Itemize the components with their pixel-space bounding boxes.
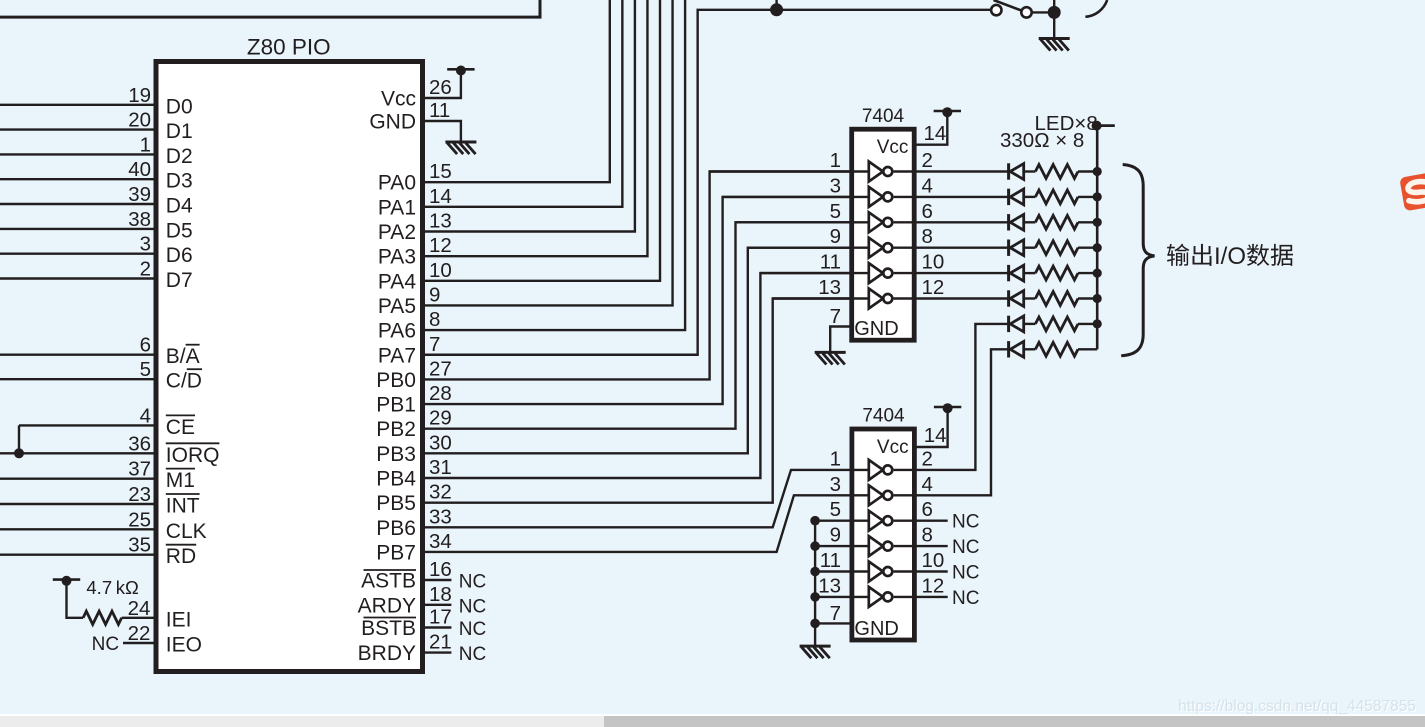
LED D2	[1007, 189, 1010, 205]
svg-text:22: 22	[128, 622, 151, 645]
wire U2 output to LED row 3	[894, 221, 1009, 223]
svg-text:NC: NC	[459, 596, 486, 617]
wire top left bus	[0, 0, 540, 17]
ground symbol U3	[800, 645, 831, 648]
inverter U2 gate 5 input wire	[760, 272, 868, 274]
wire control INT	[0, 503, 156, 505]
svg-text:13: 13	[429, 210, 452, 233]
inverter U2 gate 6	[869, 289, 883, 309]
wire control CE	[19, 424, 156, 426]
LED D5	[1007, 265, 1010, 281]
wire PB7 pin 34	[423, 495, 852, 552]
LED D3	[1007, 214, 1010, 230]
PIO GND pin 11 wire	[423, 121, 461, 142]
svg-text:CLK: CLK	[166, 520, 207, 543]
inverter U3 gate 3	[869, 511, 883, 531]
svg-text:30: 30	[429, 431, 452, 454]
svg-text:PA6: PA6	[378, 320, 416, 343]
wire PA1 pin 14	[423, 0, 623, 207]
svg-text:BRDY: BRDY	[358, 642, 416, 665]
junction CE/IORQ	[14, 448, 24, 458]
svg-text:5: 5	[830, 200, 841, 223]
svg-text:PB6: PB6	[376, 517, 416, 540]
svg-text:7404: 7404	[862, 106, 905, 127]
svg-text:GND: GND	[369, 111, 416, 134]
svg-text:21: 21	[429, 631, 452, 654]
svg-text:D5: D5	[166, 219, 193, 242]
svg-text:C/D: C/D	[166, 370, 202, 393]
svg-text:GND: GND	[854, 618, 898, 640]
svg-text:330Ω × 8: 330Ω × 8	[1000, 129, 1084, 152]
svg-text:12: 12	[922, 574, 945, 597]
Z80 PIO U1 chip body	[156, 62, 423, 672]
U3 gate 2 input wire	[852, 494, 869, 496]
svg-text:19: 19	[128, 84, 151, 107]
svg-text:NC: NC	[952, 537, 979, 558]
wire PA2 pin 13	[423, 0, 635, 232]
svg-text:https://blog.csdn.net/qq_44587: https://blog.csdn.net/qq_44587855	[1178, 698, 1416, 715]
wire resistor to IEI pin 24	[122, 617, 156, 619]
wire LED to resistor row 7	[1024, 323, 1036, 325]
svg-text:18: 18	[429, 583, 452, 606]
svg-text:9: 9	[429, 283, 440, 306]
wire LED to resistor row 2	[1024, 196, 1036, 198]
svg-text:8: 8	[922, 524, 933, 547]
wire resistor to bus row 4	[1078, 246, 1097, 248]
svg-text:35: 35	[128, 534, 151, 557]
U3 output pin 8 NC stub	[894, 545, 948, 547]
svg-text:PB7: PB7	[376, 541, 416, 564]
junction dot gnd 9	[810, 541, 820, 551]
svg-text:14: 14	[429, 185, 452, 208]
wire control RD	[0, 554, 156, 556]
7404 U3 chip body	[852, 429, 915, 640]
LED common bus vertical	[1096, 126, 1099, 350]
wire data bus D4	[0, 203, 156, 205]
wire LED to resistor row 5	[1024, 272, 1036, 274]
svg-text:PB5: PB5	[376, 492, 416, 515]
U3 output pin 12 NC stub	[894, 596, 948, 598]
svg-text:RD: RD	[166, 545, 196, 568]
resistor 330 ohm row 1	[1035, 165, 1078, 179]
svg-text:2: 2	[922, 447, 933, 470]
svg-text:NC: NC	[459, 572, 486, 593]
svg-text:PB0: PB0	[376, 369, 416, 392]
resistor R1 4.7k zigzag	[83, 611, 122, 624]
svg-text:40: 40	[128, 158, 151, 181]
brace output group	[1121, 165, 1154, 356]
svg-text:9: 9	[830, 524, 841, 547]
U3 input pin 13 grounded stub	[815, 596, 868, 598]
ground symbol pin 11	[445, 141, 476, 144]
label shuchu I/O shuju (output I/O data)	[1167, 244, 1189, 266]
partial arc symbol top right	[1085, 0, 1107, 17]
inverter U2 gate 3 input wire	[736, 221, 869, 223]
svg-text:16: 16	[429, 558, 452, 581]
wire control IORQ	[0, 452, 156, 454]
svg-text:17: 17	[429, 606, 452, 629]
wire U2 output to LED row 4	[894, 246, 1009, 248]
U3 input pin 5 grounded stub	[815, 520, 868, 522]
scrollbar track	[0, 714, 1425, 716]
wire LED to resistor row 1	[1024, 170, 1036, 172]
svg-text:13: 13	[818, 574, 841, 597]
wire resistor to bus row 2	[1078, 196, 1097, 198]
inverter U3 gate 5	[869, 562, 883, 582]
svg-text:39: 39	[128, 183, 151, 206]
wire LED to resistor row 8	[1024, 348, 1036, 350]
svg-text:6: 6	[922, 200, 933, 223]
wire data bus D5	[0, 228, 156, 230]
junction on top wire	[770, 3, 783, 16]
svg-text:31: 31	[429, 456, 452, 479]
svg-text:IORQ: IORQ	[166, 444, 220, 467]
svg-text:10: 10	[922, 251, 945, 274]
svg-text:NC: NC	[952, 563, 979, 584]
wire PB4 pin 31	[423, 273, 852, 478]
U3 pin 14 wire	[914, 413, 947, 447]
wire PA3 pin 12	[423, 0, 648, 256]
wire control C/D	[0, 378, 156, 380]
bus top stub	[1097, 124, 1115, 127]
svg-text:3: 3	[830, 473, 841, 496]
switch S1 terminal 1	[991, 5, 1001, 15]
svg-text:8: 8	[922, 225, 933, 248]
svg-text:PA3: PA3	[378, 246, 416, 269]
wire PB3 pin 30	[423, 248, 852, 454]
svg-text:PA0: PA0	[378, 172, 416, 195]
svg-text:11: 11	[820, 251, 841, 274]
svg-text:4: 4	[922, 174, 933, 197]
svg-text:11: 11	[429, 99, 450, 122]
bus top junction	[1092, 121, 1102, 131]
junction dot gnd 5	[810, 516, 820, 526]
inverter U2 gate 4	[869, 238, 883, 258]
U3 output pin 6 NC stub	[894, 520, 948, 522]
resistor 330 ohm row 6	[1035, 292, 1078, 306]
resistor 330 ohm row 3	[1035, 215, 1078, 229]
svg-text:2: 2	[922, 149, 933, 172]
svg-text:PA4: PA4	[378, 270, 416, 293]
svg-text:BSTB: BSTB	[361, 617, 416, 640]
resistor 330 ohm row 4	[1035, 241, 1078, 255]
svg-text:D6: D6	[166, 244, 193, 267]
junction dot bus row 3	[1093, 218, 1102, 227]
wire resistor to bus row 6	[1078, 297, 1097, 299]
wire data bus D0	[0, 104, 156, 106]
LED D1	[1007, 163, 1010, 179]
svg-text:33: 33	[429, 505, 452, 528]
svg-text:PB4: PB4	[376, 468, 416, 491]
scrollbar thumb	[604, 716, 1425, 727]
svg-text:25: 25	[128, 508, 151, 531]
wire ARDY pin 18 NC stub	[423, 604, 452, 606]
U3 output pin 2 wire to LED row 7	[894, 324, 1009, 470]
U3 input pin 9 grounded stub	[815, 545, 868, 547]
wire resistor to bus row 3	[1078, 221, 1097, 223]
svg-text:15: 15	[429, 160, 452, 183]
wire LED to resistor row 4	[1024, 246, 1036, 248]
inverter U3 gate 2	[869, 485, 883, 505]
U3 output pin 10 NC stub	[894, 570, 948, 572]
svg-text:D2: D2	[166, 145, 193, 168]
svg-text:12: 12	[429, 234, 452, 257]
resistor 330 ohm row 8	[1035, 342, 1078, 356]
svg-text:4: 4	[922, 473, 933, 496]
switch S1 lever	[994, 0, 1027, 12]
junction dot gnd 11	[810, 567, 820, 577]
junction dot bus row 1	[1093, 167, 1102, 176]
U3 ground bus vertical	[814, 521, 816, 646]
inverter U3 gate 1	[869, 460, 883, 480]
svg-text:NC: NC	[952, 588, 979, 609]
inverter U2 gate 1 input wire	[710, 170, 869, 172]
wire data bus D6	[0, 252, 156, 254]
svg-text:Vcc: Vcc	[877, 137, 909, 158]
ground symbol switch	[1039, 37, 1070, 40]
resistor 330 ohm row 7	[1035, 317, 1078, 331]
wire Vcc tap down to resistor	[67, 584, 84, 618]
svg-text:23: 23	[128, 483, 151, 506]
svg-text:7: 7	[830, 305, 841, 328]
wire switch to ground	[1032, 11, 1055, 13]
svg-text:NC: NC	[459, 619, 486, 640]
Vcc tap U3	[934, 406, 961, 409]
svg-text:10: 10	[922, 549, 945, 572]
svg-text:3: 3	[140, 233, 151, 256]
svg-text:37: 37	[128, 458, 151, 481]
svg-text:I/O: I/O	[1214, 243, 1246, 270]
junction dot gnd 13	[810, 592, 820, 602]
svg-text:4: 4	[140, 404, 151, 427]
wire ASTB pin 16 NC stub	[423, 579, 452, 581]
wire NC to IEO pin 22	[123, 642, 156, 644]
7404 U2 chip body	[852, 129, 915, 340]
junction dot bus row 7	[1093, 319, 1102, 328]
junction dot pin7	[810, 619, 820, 629]
svg-text:1: 1	[830, 149, 841, 172]
svg-text:14: 14	[924, 424, 947, 447]
svg-text:INT: INT	[166, 495, 200, 518]
wire data bus D7	[0, 277, 156, 279]
U2 pin 14 wire	[914, 117, 947, 145]
U3 input pin 11 grounded stub	[815, 570, 868, 572]
svg-text:14: 14	[924, 122, 947, 145]
Vcc tap U2	[934, 110, 961, 113]
wire control CLK	[0, 528, 156, 530]
wire PB6 pin 33	[423, 470, 852, 527]
svg-text:6: 6	[140, 334, 151, 357]
U2 pin 7 GND wire	[830, 327, 852, 353]
svg-text:IEI: IEI	[166, 608, 192, 631]
U3 gate 1 input wire	[852, 469, 869, 471]
LED D8	[1007, 341, 1010, 357]
svg-text:D1: D1	[166, 120, 193, 143]
wire BRDY pin 21 NC stub	[423, 651, 452, 653]
inverter U2 gate 4 input wire	[748, 246, 869, 248]
wire U2 output to LED row 6	[894, 297, 1009, 299]
svg-text:1: 1	[140, 133, 151, 156]
ground symbol U2	[815, 351, 846, 354]
Vcc tap symbol pin 26	[447, 68, 474, 71]
svg-text:11: 11	[820, 549, 841, 572]
svg-text:28: 28	[429, 382, 452, 405]
svg-text:D3: D3	[166, 170, 193, 193]
PIO Vcc pin 26 wire	[423, 75, 461, 98]
wire data bus D2	[0, 153, 156, 155]
resistor 330 ohm row 5	[1035, 266, 1078, 280]
inverter U3 gate 6	[869, 587, 883, 607]
svg-text:12: 12	[922, 276, 945, 299]
wire resistor to bus row 1	[1078, 170, 1097, 172]
wire control M1	[0, 477, 156, 479]
svg-text:29: 29	[429, 407, 452, 430]
wire PA7 pin 7	[423, 10, 992, 355]
wire LED to resistor row 3	[1024, 221, 1036, 223]
svg-text:ARDY: ARDY	[358, 594, 416, 617]
Vcc tap above 4.7k resistor	[53, 578, 80, 581]
inverter U2 gate 1	[869, 162, 883, 182]
svg-text:9: 9	[830, 225, 841, 248]
svg-text:PA5: PA5	[378, 295, 416, 318]
inverter U2 gate 3	[869, 212, 883, 232]
svg-text:CE: CE	[166, 416, 195, 439]
resistor 330 ohm row 2	[1035, 190, 1078, 204]
wire BSTB pin 17 NC stub	[423, 626, 452, 628]
LED D7	[1007, 316, 1010, 332]
svg-text:34: 34	[429, 530, 452, 553]
svg-text:8: 8	[429, 308, 440, 331]
wire PB5 pin 32	[423, 299, 852, 503]
svg-text:36: 36	[128, 432, 151, 455]
U3 pin 7 GND wire	[815, 622, 852, 624]
svg-text:PA2: PA2	[378, 221, 416, 244]
svg-text:IEO: IEO	[166, 634, 202, 657]
svg-text:26: 26	[429, 76, 452, 99]
svg-text:PA1: PA1	[378, 196, 416, 219]
svg-text:3: 3	[830, 174, 841, 197]
svg-text:B/A: B/A	[166, 345, 200, 368]
svg-text:5: 5	[830, 498, 841, 521]
junction dot bus row 6	[1093, 294, 1102, 303]
LED D6	[1007, 290, 1010, 306]
svg-text:GND: GND	[854, 318, 898, 340]
wire U2 output to LED row 5	[894, 272, 1009, 274]
svg-text:13: 13	[818, 276, 841, 299]
wire U2 output to LED row 2	[894, 196, 1009, 198]
wire U2 output to LED row 1	[894, 170, 1009, 172]
wire control B/A	[0, 354, 156, 356]
wire PA4 pin 10	[423, 0, 661, 281]
inverter U2 gate 2	[869, 187, 883, 207]
svg-text:38: 38	[128, 208, 151, 231]
junction dot bus row 2	[1093, 192, 1102, 201]
svg-text:PA7: PA7	[378, 344, 416, 367]
wire PA0 pin 15	[423, 0, 610, 182]
svg-text:PB2: PB2	[376, 418, 416, 441]
svg-text:27: 27	[429, 357, 452, 380]
svg-text:7: 7	[830, 602, 841, 625]
svg-text:20: 20	[128, 109, 151, 132]
svg-text:D4: D4	[166, 195, 193, 218]
inverter U2 gate 6 input wire	[773, 297, 869, 299]
wire PB0 pin 27	[423, 172, 852, 380]
svg-text:M1: M1	[166, 469, 195, 492]
junction dot bus row 4	[1093, 243, 1102, 252]
svg-text:PB1: PB1	[376, 394, 416, 417]
wire resistor to bus row 8	[1078, 348, 1097, 350]
wire PA6 pin 8	[423, 0, 686, 330]
CSDN logo fragment	[1399, 171, 1425, 211]
junction at switch ground	[1048, 6, 1061, 19]
inverter U2 gate 2 input wire	[723, 196, 869, 198]
inverter U3 gate 4	[869, 536, 883, 556]
svg-text:D0: D0	[166, 95, 193, 118]
svg-text:5: 5	[140, 358, 151, 381]
svg-text:Vcc: Vcc	[877, 437, 909, 458]
svg-text:6: 6	[922, 498, 933, 521]
svg-text:NC: NC	[952, 512, 979, 533]
svg-text:1: 1	[830, 447, 841, 470]
wire LED to resistor row 6	[1024, 297, 1036, 299]
svg-text:4.7 kΩ: 4.7 kΩ	[86, 577, 139, 598]
svg-text:PB3: PB3	[376, 443, 416, 466]
wire PB2 pin 29	[423, 222, 852, 428]
svg-text:NC: NC	[92, 634, 119, 655]
wire data bus D3	[0, 178, 156, 180]
inverter U2 gate 5	[869, 263, 883, 283]
wire CE to IORQ jog	[18, 425, 20, 453]
svg-text:D7: D7	[166, 269, 193, 292]
svg-text:2: 2	[140, 258, 151, 281]
svg-text:7404: 7404	[862, 406, 905, 427]
svg-text:32: 32	[429, 481, 452, 504]
wire PA5 pin 9	[423, 0, 673, 305]
svg-text:Z80 PIO: Z80 PIO	[247, 35, 331, 60]
svg-text:10: 10	[429, 259, 452, 282]
svg-text:24: 24	[128, 597, 151, 620]
svg-text:NC: NC	[459, 644, 486, 665]
svg-text:Vcc: Vcc	[381, 88, 416, 111]
LED D4	[1007, 240, 1010, 256]
wire resistor to bus row 5	[1078, 272, 1097, 274]
svg-text:7: 7	[429, 333, 440, 356]
U3 output pin 4 wire to LED row 8	[894, 349, 1009, 495]
wire resistor to bus row 7	[1078, 323, 1097, 325]
wire data bus D1	[0, 128, 156, 130]
switch S1 terminal 2	[1021, 7, 1031, 17]
svg-text:ASTB: ASTB	[361, 570, 416, 593]
wire PB1 pin 28	[423, 197, 852, 404]
junction dot bus row 5	[1093, 269, 1102, 278]
